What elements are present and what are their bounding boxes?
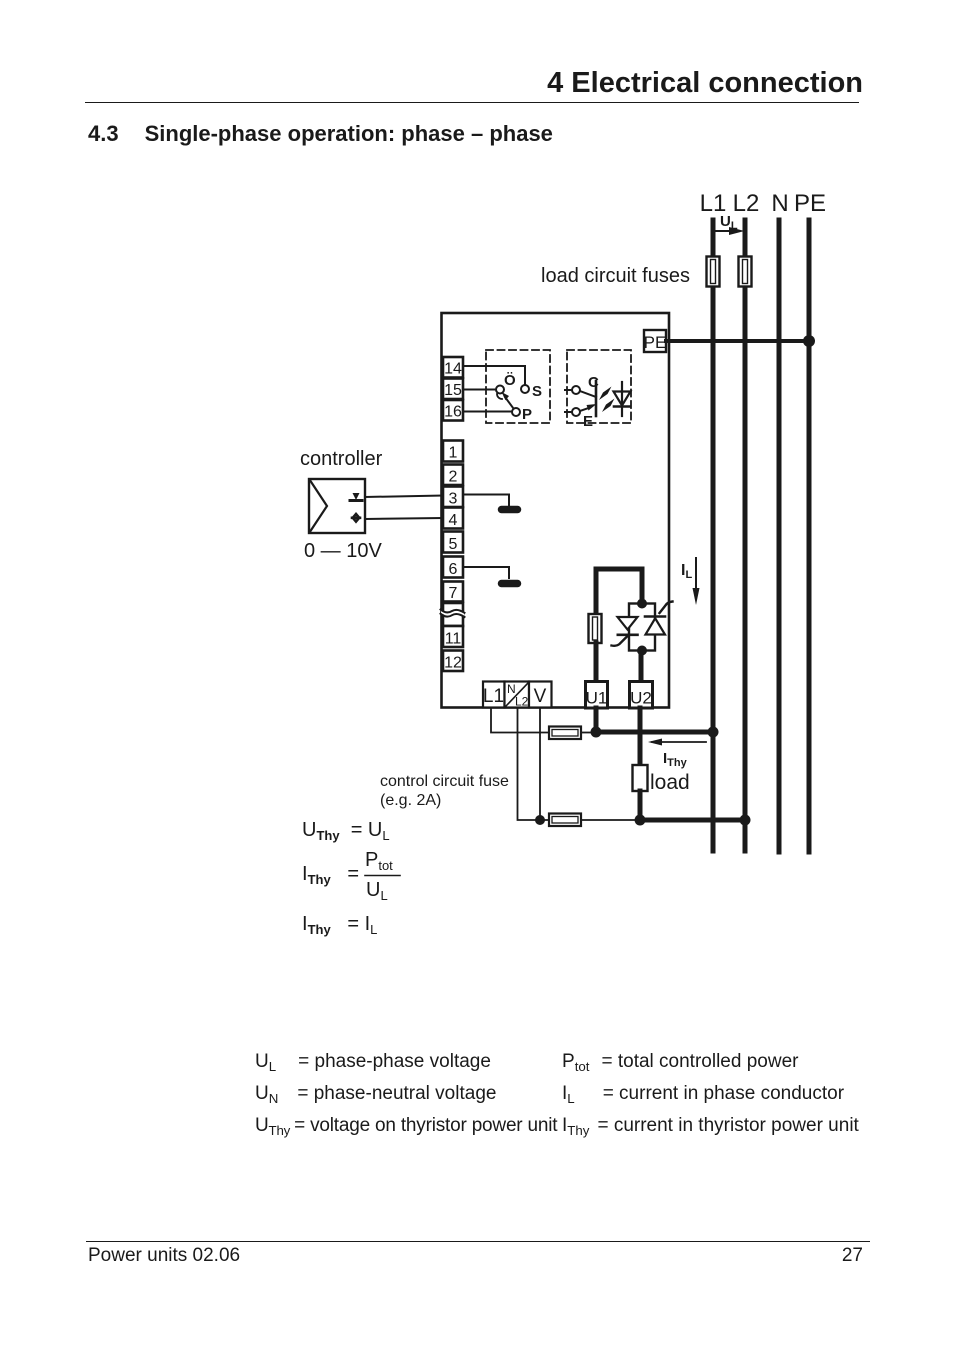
LED diode — [614, 382, 631, 416]
svg-text:PE: PE — [644, 333, 667, 352]
svg-text:N: N — [771, 190, 788, 217]
legend row 3 right: IThy — [562, 1115, 859, 1138]
wire U1 riser to thyristor top — [596, 569, 642, 614]
svg-text:L2: L2 — [733, 190, 760, 217]
contact P circle — [512, 406, 532, 423]
current label IL with arrow — [681, 558, 700, 605]
heading rule — [85, 102, 859, 103]
internal common bar at terminal 3 — [502, 506, 518, 514]
terminal 15 — [443, 379, 463, 400]
junction on L2 line — [740, 815, 751, 826]
svg-text:C: C — [588, 374, 599, 391]
legend row 1 left: UL — [255, 1051, 491, 1074]
node L2 label — [733, 190, 760, 217]
terminal N/L2 bottom — [505, 682, 530, 709]
svg-text:5: 5 — [449, 536, 458, 553]
chapter heading — [0, 67, 863, 100]
wire fuse to U1 junction — [581, 732, 592, 734]
svg-text:7: 7 — [449, 585, 458, 602]
wire terminal 16 to contact P — [463, 411, 512, 413]
svg-text:controller: controller — [300, 448, 383, 470]
svg-text:0 — 10V: 0 — 10V — [304, 540, 382, 562]
junction on PE line — [803, 335, 815, 347]
svg-text:L2: L2 — [515, 695, 529, 709]
terminal 11 — [443, 626, 463, 648]
label load circuit fuses — [541, 265, 690, 287]
wire N/L2 terminal down — [518, 708, 550, 820]
internal common bar at terminal 6 — [502, 580, 518, 588]
svg-text:E: E — [583, 413, 593, 430]
svg-text:load: load — [650, 771, 690, 794]
terminal 7 — [443, 582, 463, 603]
svg-text:1: 1 — [449, 445, 458, 462]
label controller — [300, 448, 383, 470]
thyristor Q1 (left, conducting down) — [612, 617, 638, 646]
wire V terminal down — [539, 708, 541, 820]
legend row 3 left: UThy — [255, 1115, 557, 1138]
svg-text:control circuit fuse: control circuit fuse — [380, 773, 509, 790]
terminal 1 — [443, 441, 463, 462]
svg-text:U1: U1 — [586, 689, 608, 708]
wire load bottom — [638, 791, 643, 820]
label load — [650, 771, 690, 794]
wire fuse to U1 terminal — [594, 643, 599, 683]
fuse F3 internal — [589, 614, 602, 643]
formula IThy = Ptot / UL — [302, 849, 400, 903]
wire N supply line — [777, 220, 782, 852]
wire terminal 3 to internal common — [463, 495, 509, 506]
phototransistor body — [580, 381, 597, 416]
controller box U10 — [309, 479, 365, 533]
switch lever P to O — [497, 392, 514, 409]
fuse F2 on L2 (load circuit fuse) — [739, 257, 752, 287]
terminal 6 — [443, 557, 463, 579]
wire U1 node to L1 line — [596, 730, 713, 735]
wire L2 supply line — [743, 220, 748, 851]
svg-text:UThy = UL: UThy = UL — [302, 819, 390, 843]
wire terminal 15 to contact O — [463, 389, 496, 391]
svg-text:IL: IL — [681, 562, 692, 581]
svg-text:PE: PE — [794, 190, 826, 217]
optocoupler pin E — [565, 408, 593, 430]
terminal U2 — [630, 682, 653, 709]
terminal U1 — [586, 682, 608, 709]
svg-text:L1: L1 — [483, 686, 504, 707]
terminal PE box — [644, 330, 667, 352]
contact S circle — [521, 383, 542, 400]
terminal V bottom — [529, 682, 552, 708]
junction on L1 line — [708, 727, 719, 738]
dashed box: relay option — [486, 350, 550, 423]
label 0-10V — [304, 540, 382, 562]
wire terminal 14 to contact S — [463, 366, 525, 385]
terminal 16 — [443, 400, 463, 421]
wire terminal 6 to internal common — [463, 567, 509, 578]
svg-text:6: 6 — [449, 561, 458, 578]
svg-text:4: 4 — [449, 512, 458, 529]
label control circuit fuse — [380, 773, 509, 809]
wire PE supply line — [807, 220, 812, 852]
LED light arrows — [599, 387, 615, 413]
thyristor Q2 (right, conducting up) — [645, 602, 673, 635]
wire U2 terminal down to load — [638, 708, 643, 765]
formula UThy = UL — [302, 819, 390, 843]
formula IThy = IL — [302, 913, 377, 937]
legend row 1 right: Ptot — [562, 1051, 798, 1074]
node L1 label — [700, 190, 727, 217]
thyristor pair frame — [629, 604, 655, 651]
fuse F4 control circuit upper — [549, 727, 581, 740]
wire fuse to load node — [581, 819, 635, 821]
optocoupler pin C — [565, 374, 599, 394]
svg-text:IThy: IThy — [663, 750, 688, 769]
terminal L1 bottom — [483, 682, 505, 708]
terminal 14 — [443, 357, 463, 378]
junction load bottom — [635, 815, 646, 826]
svg-text:S: S — [532, 383, 542, 400]
svg-text:12: 12 — [444, 655, 462, 672]
terminal 4 — [443, 508, 463, 530]
svg-text:Ö: Ö — [504, 372, 516, 389]
svg-text:U2: U2 — [630, 689, 652, 708]
svg-text:2: 2 — [449, 469, 458, 486]
wire U1 terminal down — [594, 708, 599, 732]
wire controller to terminal 3 — [365, 496, 443, 498]
junction thyristor bottom — [637, 646, 647, 656]
junction V node — [535, 815, 545, 825]
junction U1 node — [591, 727, 602, 738]
terminal 2 — [443, 465, 463, 486]
dashed box: optocoupler — [567, 350, 631, 423]
svg-text:IThy = IL: IThy = IL — [302, 913, 377, 937]
wire controller to terminal 4 — [365, 518, 443, 519]
terminal 12 — [443, 651, 463, 672]
terminal strip break symbol — [441, 603, 465, 626]
wire L1 supply line — [711, 220, 716, 851]
junction thyristor top — [637, 599, 647, 609]
svg-text:14: 14 — [444, 361, 462, 378]
svg-text:11: 11 — [445, 631, 462, 648]
controller plus symbol — [352, 514, 360, 522]
node PE label — [794, 190, 826, 217]
power unit enclosure box — [442, 313, 670, 708]
svg-text:Ptot: Ptot — [365, 849, 393, 873]
terminal 5 — [443, 532, 463, 554]
footer right: page number — [0, 1245, 863, 1267]
svg-text:IThy =: IThy = — [302, 863, 365, 887]
node N label — [771, 190, 788, 217]
wire L1 terminal down and right — [491, 708, 549, 733]
legend row 2 right: IL — [562, 1083, 844, 1106]
fuse F5 control circuit lower — [549, 814, 581, 827]
footer left: document name — [88, 1245, 240, 1267]
svg-text:P: P — [522, 406, 532, 423]
current label IThy with arrow — [648, 739, 706, 770]
svg-text:16: 16 — [444, 404, 462, 421]
fuse F1 on L1 (load circuit fuse) — [707, 257, 720, 287]
svg-text:UL: UL — [366, 879, 388, 903]
section heading 4.3 — [88, 121, 553, 147]
load resistor — [633, 765, 648, 791]
wire load node to L2 line — [640, 818, 745, 823]
wire PE box to PE line — [666, 339, 809, 343]
voltage label UL with arrow — [716, 213, 745, 235]
schematic SVG — [0, 0, 954, 1010]
contact O circle — [496, 372, 516, 394]
svg-text:V: V — [534, 686, 547, 707]
legend row 2 left: UN — [255, 1083, 496, 1106]
svg-text:15: 15 — [444, 382, 462, 399]
svg-text:(e.g. 2A): (e.g. 2A) — [380, 792, 441, 809]
terminal 3 — [443, 487, 463, 508]
svg-text:3: 3 — [449, 491, 458, 508]
controller common symbol — [350, 493, 362, 501]
svg-text:load circuit fuses: load circuit fuses — [541, 265, 690, 287]
wire thyristor bottom to U2 terminal — [639, 650, 644, 683]
footer rule — [86, 1241, 870, 1242]
